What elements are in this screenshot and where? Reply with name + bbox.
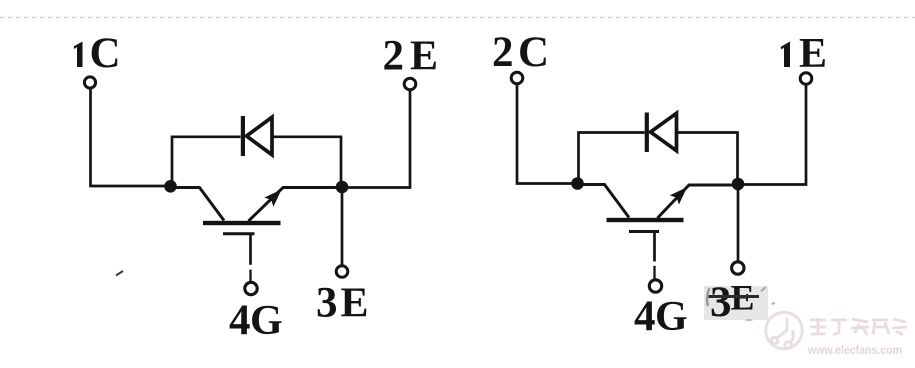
- transistor Q2 body bar: [607, 218, 684, 222]
- svg-text:E: E: [341, 281, 369, 327]
- terminal 3E: [336, 266, 348, 278]
- grey print artifacts around right 3E: [707, 288, 709, 306]
- wire node B to terminal 2E: [342, 91, 410, 188]
- stray pen mark: [116, 271, 123, 276]
- wire node B down to terminal 3E: [341, 187, 344, 265]
- svg-text:2: 2: [383, 33, 405, 80]
- transistor Q1 (IGBT) collector lead: [176, 188, 224, 221]
- terminal 1E: [800, 73, 812, 85]
- terminal 1C: [84, 77, 95, 88]
- wire diode D2 to right corner: [677, 133, 738, 179]
- watermark chinese text strokes: [810, 318, 907, 335]
- terminal label 1E: [781, 42, 791, 68]
- svg-text:2: 2: [492, 29, 514, 76]
- wire 2C to node C: [517, 85, 572, 184]
- node D (emitter junction): [732, 178, 745, 191]
- terminal 3E (right): [732, 262, 744, 274]
- wire diode D1 to right corner: [272, 137, 341, 182]
- svg-text:4: 4: [634, 293, 656, 340]
- transistor Q1 gate bar: [223, 232, 255, 235]
- transistor Q2 emitter arrow: [670, 187, 687, 204]
- diode D1 triangle: [247, 117, 273, 155]
- wire 1C to node A: [91, 90, 166, 187]
- wire node D down to terminal 3E: [737, 184, 740, 261]
- watermark logo circle: [766, 312, 803, 349]
- transistor Q2 (IGBT) collector lead: [582, 185, 629, 218]
- svg-text:4: 4: [229, 297, 251, 344]
- svg-text:G: G: [655, 294, 688, 340]
- transistor Q2 gate bar: [629, 230, 659, 233]
- transistor Q1 emitter lead: [249, 188, 337, 222]
- diode D2 cathode bar: [645, 113, 649, 153]
- strike mark through right 3E: [707, 295, 759, 298]
- diode D1 cathode bar: [241, 116, 245, 156]
- svg-text:C: C: [90, 30, 121, 77]
- svg-text:3: 3: [316, 280, 338, 327]
- transistor Q1 emitter arrow: [264, 190, 281, 207]
- wire node D to terminal 1E: [738, 85, 806, 185]
- node A (collector junction): [164, 180, 177, 193]
- transistor Q1 gate lead: [249, 234, 252, 265]
- transistor Q1 body bar: [203, 221, 281, 225]
- diode D2 triangle: [651, 113, 677, 151]
- smudge box behind right 3E label: [704, 286, 768, 320]
- terminal 2C: [511, 72, 523, 84]
- wire node A up to diode D1: [172, 137, 241, 186]
- svg-text:3: 3: [710, 279, 732, 326]
- terminal 4G (right): [649, 280, 661, 292]
- svg-text:E: E: [410, 34, 438, 80]
- svg-text:C: C: [518, 29, 549, 76]
- svg-text:www.elecfans.com: www.elecfans.com: [807, 343, 902, 357]
- terminal 4G: [245, 282, 257, 294]
- svg-text:E: E: [799, 31, 827, 77]
- svg-text:G: G: [250, 298, 283, 344]
- terminal label 1C: [74, 42, 83, 68]
- top dashed separator line: [0, 17, 915, 19]
- node C (collector junction): [571, 177, 584, 190]
- transistor Q2 gate lead: [653, 232, 656, 262]
- terminal 2E: [404, 78, 416, 90]
- wire node C up to diode D2: [579, 133, 645, 184]
- transistor Q2 emitter lead: [658, 185, 734, 218]
- node B (emitter junction): [336, 181, 349, 194]
